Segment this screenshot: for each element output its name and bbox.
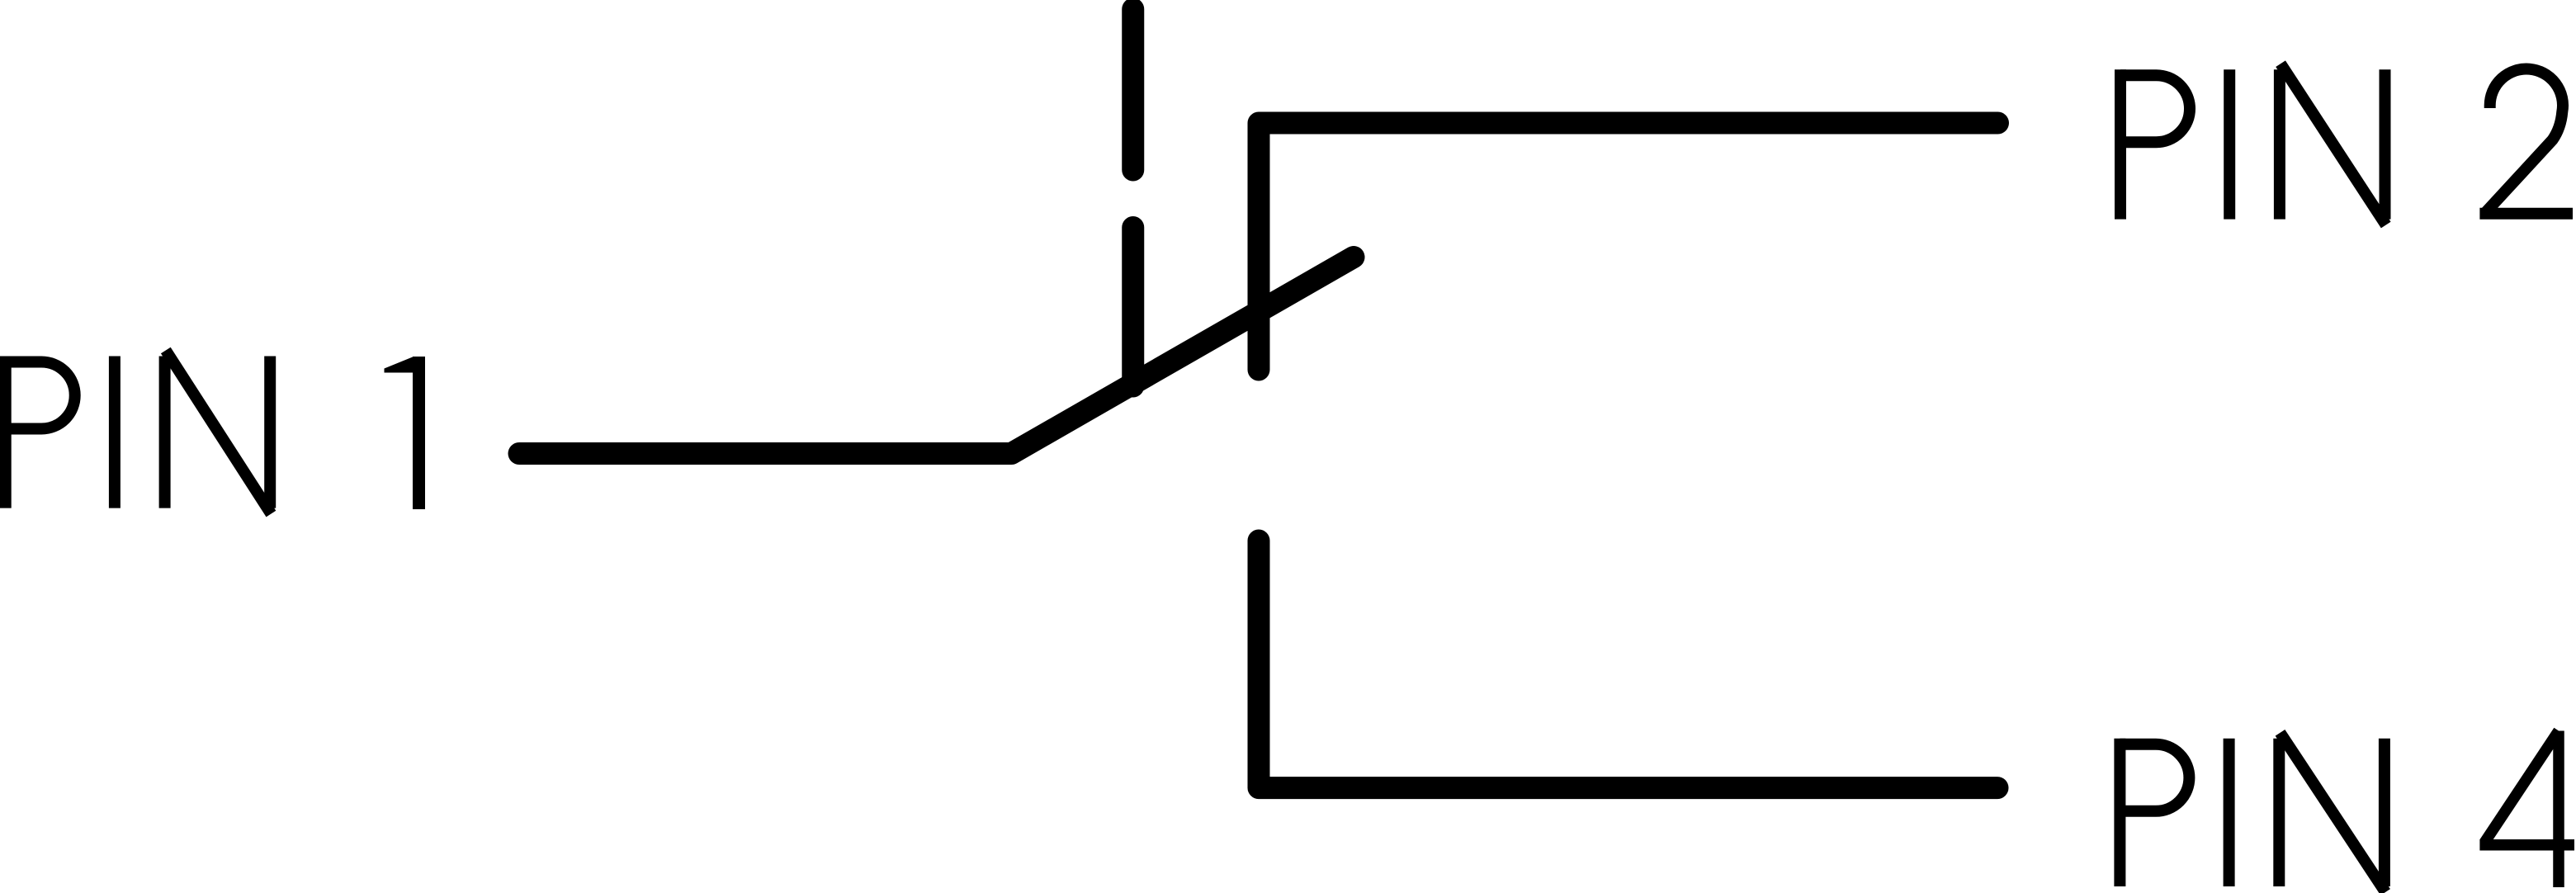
wire: pin 2 contact (vertical stub + horizontal lead) xyxy=(1259,123,1998,370)
label PIN 2 xyxy=(2120,64,2573,224)
label PIN 4 xyxy=(2120,731,2574,893)
wire: pin 1 lead + switch lever SW1 xyxy=(519,258,1354,454)
actuator dashed link, dash 2 xyxy=(1122,228,1144,387)
actuator dashed link, dash 1 xyxy=(1122,9,1144,170)
wire: pin 4 contact (vertical stub + horizontal lead) xyxy=(1259,541,1997,788)
label PIN 1 xyxy=(6,351,419,514)
